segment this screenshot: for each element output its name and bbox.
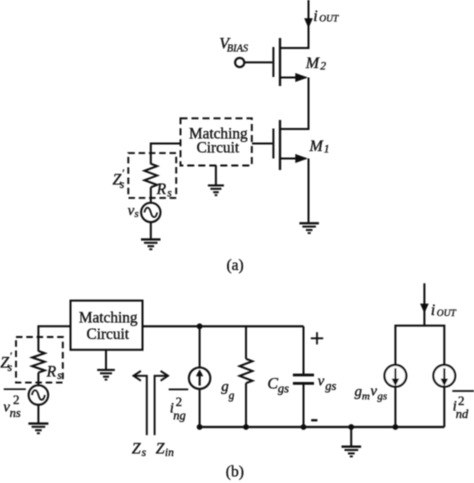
svg-text:OUT: OUT bbox=[437, 309, 457, 319]
svg-text:nd: nd bbox=[456, 407, 469, 421]
svg-text:s: s bbox=[142, 447, 147, 459]
svg-text:m: m bbox=[362, 390, 370, 402]
svg-text:2: 2 bbox=[320, 60, 326, 72]
svg-text:OUT: OUT bbox=[319, 15, 339, 25]
svg-text:C: C bbox=[267, 375, 278, 392]
svg-text:in: in bbox=[165, 447, 174, 459]
svg-text:s: s bbox=[120, 179, 125, 191]
svg-text:s: s bbox=[8, 362, 13, 374]
svg-text:ng: ng bbox=[173, 409, 186, 423]
svg-text:R: R bbox=[156, 181, 167, 198]
svg-text:(b): (b) bbox=[226, 464, 244, 481]
svg-text:ns: ns bbox=[10, 406, 21, 420]
svg-text:BIAS: BIAS bbox=[227, 44, 248, 55]
svg-text:M: M bbox=[309, 138, 325, 155]
svg-text:gs: gs bbox=[278, 382, 289, 396]
svg-text:v: v bbox=[318, 373, 325, 389]
svg-text:gs: gs bbox=[325, 379, 336, 393]
svg-text:2: 2 bbox=[13, 392, 20, 407]
svg-text:s: s bbox=[167, 188, 172, 200]
svg-text:v: v bbox=[370, 384, 377, 400]
svg-text:′: ′ bbox=[9, 351, 12, 363]
svg-text:2: 2 bbox=[458, 393, 465, 408]
svg-text:M: M bbox=[305, 55, 321, 72]
svg-text:1: 1 bbox=[324, 143, 330, 155]
svg-text:Circuit: Circuit bbox=[87, 326, 130, 343]
svg-text:′: ′ bbox=[122, 168, 125, 180]
svg-text:Z: Z bbox=[132, 440, 142, 457]
svg-text:gs: gs bbox=[377, 391, 387, 403]
svg-text:i: i bbox=[313, 8, 317, 25]
svg-text:g: g bbox=[229, 390, 235, 402]
svg-text:s: s bbox=[57, 370, 62, 382]
svg-text:(a): (a) bbox=[227, 257, 244, 274]
svg-text:R: R bbox=[46, 363, 57, 380]
svg-text:i: i bbox=[431, 302, 435, 319]
svg-text:Matching: Matching bbox=[79, 310, 138, 327]
svg-text:Circuit: Circuit bbox=[197, 139, 240, 156]
svg-text:s: s bbox=[134, 208, 138, 220]
svg-text:2: 2 bbox=[176, 394, 183, 409]
